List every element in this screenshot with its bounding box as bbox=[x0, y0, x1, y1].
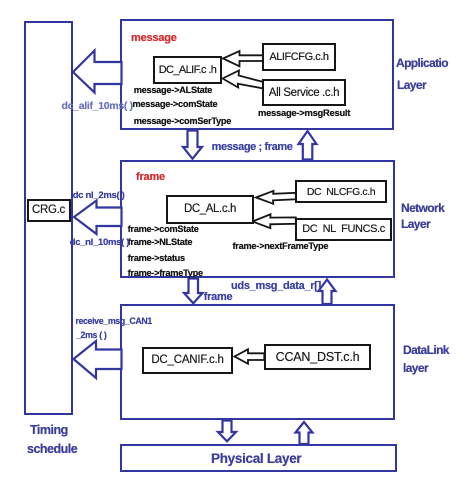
box DC NL FUNCS.c bbox=[295, 218, 392, 241]
arrow down app to network bbox=[183, 131, 202, 159]
label _2ms ( ) bbox=[76, 330, 106, 340]
label dc nl_2ms bbox=[73, 190, 125, 201]
label message ; frame bbox=[212, 141, 293, 153]
label Timing schedule bbox=[30, 423, 68, 437]
label frame->status bbox=[128, 253, 185, 263]
label uds_msg_data_r[] bbox=[231, 280, 321, 292]
arrow down network to datalink frame bbox=[184, 279, 203, 304]
label frame red bbox=[136, 171, 165, 183]
box DC_AL.c.h bbox=[166, 195, 254, 224]
box timing schedule rectangle bbox=[24, 21, 73, 415]
label DataLink layer bbox=[403, 343, 449, 357]
arrow DC NL FUNCS to DC_AL bbox=[253, 214, 296, 228]
box DC_CANIF.c.h bbox=[142, 347, 233, 374]
arrow dc_nl network to CRG.c bbox=[74, 201, 122, 235]
arrow up datalink to network uds_msg_data_r bbox=[319, 280, 336, 305]
box All Service.c.h bbox=[262, 79, 346, 106]
arrow ALIFCFG to DC_ALIF bbox=[223, 51, 264, 66]
box Network Layer bbox=[120, 160, 395, 278]
label frame->frameType bbox=[128, 268, 203, 278]
label message->ALState bbox=[134, 85, 212, 95]
label frame->NLState bbox=[128, 237, 193, 247]
label message->comSerType bbox=[134, 116, 231, 126]
label message->msgResult bbox=[258, 107, 350, 118]
arrow up physical to datalink bbox=[296, 422, 313, 444]
label receive_msg_CAN1 bbox=[75, 316, 152, 326]
label frame->comState bbox=[128, 224, 199, 234]
box DataLink Layer bbox=[120, 304, 395, 420]
label message->comState bbox=[133, 99, 218, 109]
arrow up network to app bbox=[299, 131, 317, 160]
label Application Layer bbox=[396, 56, 448, 70]
label dc_alif_10ms bbox=[62, 100, 133, 112]
label frame blue bbox=[204, 291, 232, 303]
label Physical Layer bbox=[211, 451, 301, 466]
box DC_ALIF.c.h bbox=[153, 56, 222, 84]
arrow dc_alif_10ms app to timing bbox=[73, 51, 122, 93]
box CCAN_DST.c.h bbox=[264, 344, 371, 370]
label Network Layer bbox=[401, 201, 444, 215]
box CRG.c bbox=[27, 199, 71, 222]
arrow All Service to DC_ALIF bbox=[223, 71, 264, 89]
box Application Layer bbox=[120, 19, 394, 130]
arrow DC NLCFG to DC_AL bbox=[256, 191, 296, 204]
label dc_nl_10ms bbox=[70, 237, 129, 248]
box DC NLCFG.c.h bbox=[295, 180, 387, 203]
arrow receive_msg datalink to timing bbox=[74, 341, 122, 378]
arrow down datalink to physical bbox=[218, 421, 236, 442]
label message red bbox=[131, 32, 177, 44]
box Physical Layer bbox=[120, 444, 397, 472]
box ALIFCFG.c.h bbox=[262, 43, 336, 71]
label frame->nextFrameType bbox=[233, 241, 329, 251]
arrow CCAN_DST to DC_CANIF bbox=[235, 349, 265, 364]
